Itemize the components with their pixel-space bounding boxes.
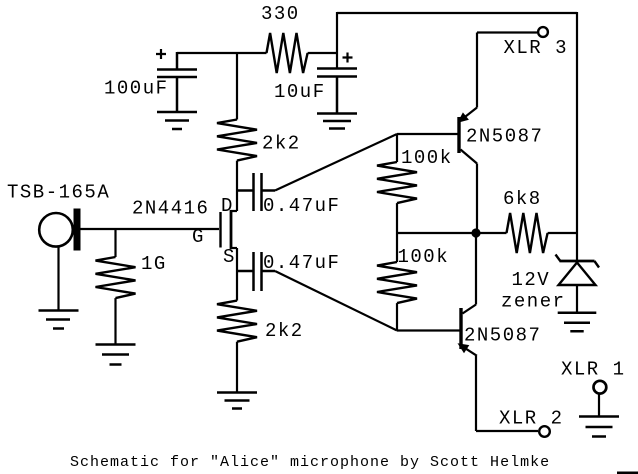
wire XLR 1 ground lead <box>598 395 600 417</box>
svg-text:1G: 1G <box>141 253 167 275</box>
svg-text:XLR 2: XLR 2 <box>499 408 564 430</box>
zener left wing <box>556 255 561 262</box>
wire diagonal C3 to upper divider node <box>275 134 397 191</box>
ground under C1 <box>157 112 197 129</box>
zener right wing <box>594 261 599 268</box>
wire 1G bottom lead <box>114 298 116 344</box>
svg-text:S: S <box>223 246 236 268</box>
resistor R6 100k lower <box>377 262 417 303</box>
wire 2k2 lower bottom lead <box>236 342 238 392</box>
transistor J1 2N4416 gate bar <box>219 212 221 248</box>
Q2 emitter diagonal <box>460 345 477 356</box>
terminal XLR 2 <box>539 426 550 437</box>
svg-text:10uF: 10uF <box>274 81 326 103</box>
wire drain column <box>236 161 238 211</box>
Q1 collector diagonal <box>461 150 478 164</box>
Q1 emitter diagonal <box>459 108 478 123</box>
wire 100k upper top lead <box>396 134 398 162</box>
svg-text:zener: zener <box>501 291 566 313</box>
wire top rail <box>337 12 577 14</box>
transistor J1 channel bar <box>230 210 233 249</box>
svg-text:0.47uF: 0.47uF <box>263 195 340 217</box>
terminal XLR 3 <box>538 27 548 37</box>
capacitor C1 100uF plus sign <box>156 49 166 59</box>
svg-text:TSB-165A: TSB-165A <box>7 182 110 204</box>
svg-text:330: 330 <box>261 3 300 25</box>
svg-text:100uF: 100uF <box>104 78 169 100</box>
wire source column <box>236 248 238 301</box>
svg-text:G: G <box>192 226 205 248</box>
capsule electret plate <box>74 209 81 251</box>
wire right vertical to zener <box>576 12 578 260</box>
svg-text:2N5087: 2N5087 <box>464 325 541 347</box>
Q1 emitter arrow <box>457 112 469 123</box>
svg-text:2k2: 2k2 <box>265 320 304 342</box>
wire middle rail <box>397 232 507 234</box>
wire Q2 collector up to node <box>475 233 477 305</box>
wire diagonal C4 to lower base node <box>275 271 397 331</box>
wire 100k lower top lead <box>396 233 398 262</box>
ground under 2k2 <box>217 393 257 409</box>
node A supply wire (100uF to 330) <box>177 52 267 54</box>
microphone capsule TSB-165A <box>39 213 73 247</box>
svg-text:0.47uF: 0.47uF <box>263 252 340 274</box>
ground under XLR 1 <box>579 417 619 437</box>
svg-text:D: D <box>221 195 234 217</box>
wire to XLR 3 <box>477 31 537 33</box>
resistor R4 2k2 lower <box>217 301 257 342</box>
ground under zener <box>558 313 597 332</box>
wire capsule output to gate <box>81 228 220 230</box>
wire Q2 emitter down <box>475 356 477 431</box>
wire lower base wire <box>397 329 460 331</box>
svg-text:Schematic for "Alice" micropho: Schematic for "Alice" microphone by Scot… <box>70 454 550 471</box>
resistor R1 330 <box>267 33 308 73</box>
wire to XLR 2 <box>476 430 538 432</box>
wire 1G top lead <box>114 229 116 257</box>
wire upper base wire <box>397 133 458 135</box>
zener triangle anode <box>559 263 596 286</box>
corner artifact mark <box>617 472 638 474</box>
capacitor C2 10uF <box>317 69 357 114</box>
svg-text:100k: 100k <box>398 246 450 268</box>
ground under C2 <box>317 114 357 129</box>
svg-text:6k8: 6k8 <box>503 188 542 210</box>
svg-text:12V: 12V <box>512 269 551 291</box>
capacitor C2 10uF plus sign <box>343 53 353 63</box>
svg-text:100k: 100k <box>401 147 453 169</box>
wire zener bottom lead <box>576 285 578 312</box>
wire 330 right lead <box>308 52 337 54</box>
Q2 emitter arrow <box>458 343 470 353</box>
junction node dot <box>471 228 480 237</box>
transistor Q1 2N5087 upper base bar <box>457 117 460 153</box>
wire rail down to 10uF <box>336 12 338 69</box>
svg-text:2N5087: 2N5087 <box>466 126 543 148</box>
wire 2k2 top lead <box>236 53 238 120</box>
wire drain jog <box>230 210 237 212</box>
resistor R7 6k8 <box>507 213 548 253</box>
terminal XLR 1 <box>594 381 607 394</box>
resistor R2 2k2 upper <box>217 120 257 161</box>
ground under capsule <box>39 311 79 329</box>
capacitor C4 0.47uF lower <box>237 252 275 291</box>
capacitor C3 0.47uF upper <box>237 173 275 211</box>
svg-text:XLR 1: XLR 1 <box>561 359 626 381</box>
wire 6k8 right lead <box>548 232 577 234</box>
wire 100k upper bottom lead <box>396 203 398 233</box>
wire source jog <box>230 247 237 249</box>
wire Q1 collector down to node <box>476 164 478 234</box>
capacitor C1 100uF <box>157 52 197 111</box>
svg-text:2k2: 2k2 <box>262 133 301 155</box>
transistor Q2 2N5087 lower base bar <box>459 308 462 349</box>
resistor R5 100k upper <box>377 162 417 203</box>
Q2 collector diagonal <box>463 305 477 314</box>
wire Q1 emitter up <box>476 33 478 108</box>
ground under 1G <box>96 345 136 365</box>
zener diode D1 cathode bar <box>560 260 595 263</box>
wire capsule ground lead <box>57 247 59 311</box>
svg-text:2N4416: 2N4416 <box>132 198 209 220</box>
wire 100k lower bottom lead <box>396 303 398 330</box>
resistor R3 1G <box>96 257 136 298</box>
svg-text:XLR 3: XLR 3 <box>504 37 569 59</box>
